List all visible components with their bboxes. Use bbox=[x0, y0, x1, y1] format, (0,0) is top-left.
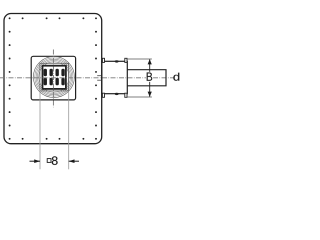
vertical centerline bbox=[52, 50, 54, 108]
screw hole dots top row bbox=[9, 17, 97, 19]
oval slot top bbox=[115, 60, 119, 62]
outlet socket mark on plate edge bbox=[97, 75, 102, 77]
label d bbox=[173, 73, 179, 81]
screw hole dots bottom row bbox=[9, 138, 97, 140]
trap body box bbox=[102, 61, 128, 93]
dimension square8 line right bbox=[69, 160, 79, 162]
label B bbox=[146, 72, 153, 82]
grate slots row 1 bbox=[44, 69, 65, 77]
drain cover square bbox=[31, 56, 75, 100]
mounting plate bbox=[4, 14, 102, 144]
dimension square8 extension line left bbox=[39, 89, 41, 169]
dimension B arrow down bbox=[148, 92, 152, 97]
dimension B arrow up bbox=[148, 59, 152, 64]
clip top-left bbox=[102, 58, 104, 62]
screw hole dots right column bbox=[95, 31, 97, 127]
horizontal centerline bbox=[0, 77, 175, 79]
arrow pointing right bbox=[34, 159, 40, 163]
screw hole dots left column bbox=[9, 31, 11, 127]
dimension square8 extension line right bbox=[68, 91, 70, 169]
clamping ring circles bbox=[33, 57, 74, 98]
dimension B line bbox=[149, 59, 151, 72]
outlet pipe bbox=[127, 70, 166, 86]
dimension B extension line top bbox=[127, 58, 151, 60]
dimension square8 line left bbox=[30, 160, 41, 162]
clip bottom-right bbox=[125, 93, 127, 97]
arrow pointing left bbox=[69, 159, 75, 163]
grate slots row 2 bbox=[44, 78, 65, 86]
dimension B extension line bottom bbox=[127, 96, 151, 98]
oval slot bottom bbox=[115, 93, 119, 95]
label square glyph bbox=[47, 159, 51, 163]
grate outer lip square bbox=[40, 63, 69, 91]
clip bottom-left bbox=[102, 93, 104, 97]
grate frame bbox=[43, 66, 66, 89]
clip top-right bbox=[125, 58, 127, 62]
label 8 bbox=[52, 156, 58, 164]
